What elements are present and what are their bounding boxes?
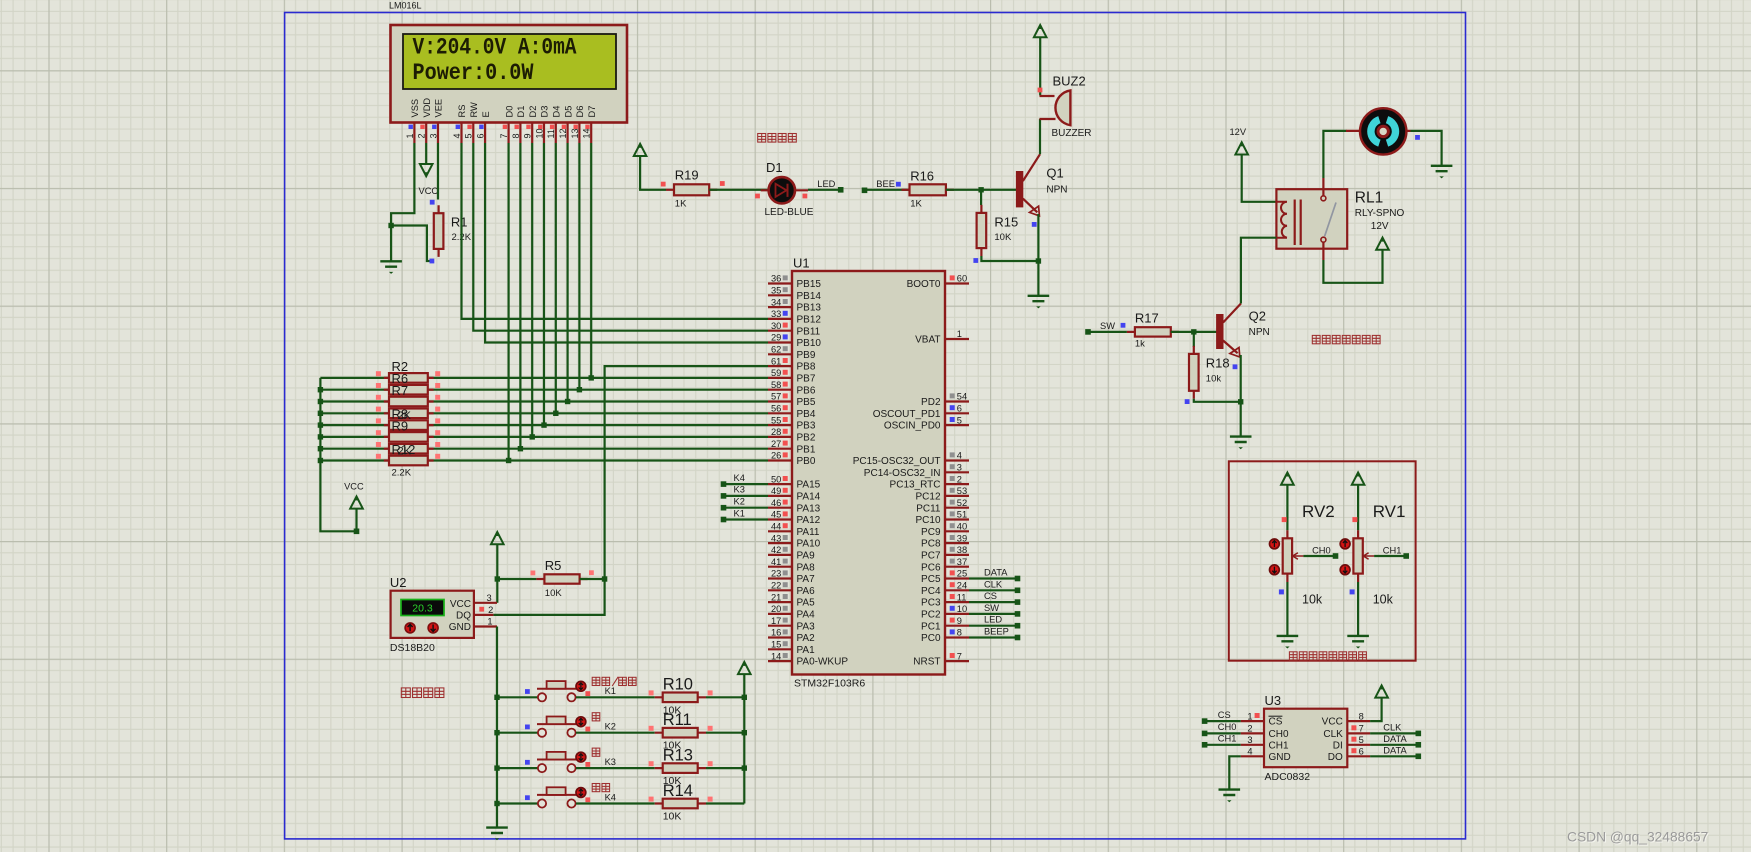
svg-text:R13: R13 — [663, 746, 693, 764]
terminal net DATA (U3 right) — [1416, 754, 1422, 760]
svg-text:DATA: DATA — [1383, 734, 1407, 744]
svg-text:PB13: PB13 — [797, 303, 822, 314]
junction D3/PB3 row — [541, 422, 546, 427]
power VCC (buzzer) — [1034, 25, 1047, 37]
U1 pin 38 PC7 — [945, 554, 969, 556]
resistor R5 — [536, 578, 587, 580]
svg-text:DO: DO — [1328, 752, 1343, 763]
svg-text:PB0: PB0 — [797, 456, 816, 467]
wire RV1 to ground — [1357, 582, 1359, 636]
svg-text:12V: 12V — [1230, 127, 1247, 137]
U1 pin 43 PA10 — [768, 542, 792, 544]
U1 pin 49 PA14 — [768, 495, 792, 497]
state square K2 right — [585, 727, 590, 732]
svg-text:23: 23 — [771, 569, 781, 579]
svg-text:CLK: CLK — [1383, 722, 1402, 732]
U1 pin 51 PC10 — [945, 518, 969, 520]
wire net CS (U3) — [1205, 720, 1241, 722]
svg-text:PB5: PB5 — [797, 397, 816, 408]
temperature sensor U2 DS18B20 body — [391, 591, 474, 638]
wire Q1 collector to buzzer — [1039, 119, 1041, 154]
wire BEE to R16 — [865, 189, 910, 192]
power VCC (key resistors) — [738, 662, 751, 674]
svg-text:PA4: PA4 — [797, 610, 816, 621]
svg-text:Q2: Q2 — [1249, 309, 1266, 324]
svg-text:38: 38 — [957, 545, 967, 555]
svg-text:PC1: PC1 — [921, 621, 941, 632]
svg-text:CS: CS — [1269, 717, 1283, 728]
U1 pin 9 PC1 — [945, 625, 969, 627]
wire net DATA (U3 right) — [1370, 744, 1418, 746]
svg-text:CH1: CH1 — [1383, 545, 1402, 555]
wire U3 GND to ground — [1229, 756, 1240, 789]
svg-text:RLY-SPNO: RLY-SPNO — [1355, 208, 1405, 219]
svg-text:CH1: CH1 — [1218, 734, 1237, 744]
state square net BEE — [896, 182, 901, 187]
svg-text:ADC0832: ADC0832 — [1265, 771, 1311, 783]
U1 pin 29 PB10 — [768, 341, 792, 343]
state square motor right — [1415, 135, 1420, 140]
wire R11 to rail — [706, 732, 744, 734]
wire rail to K2 — [497, 732, 538, 734]
LCD display LM016L body — [391, 25, 628, 123]
wire rail to ground — [496, 804, 498, 828]
svg-text:K1: K1 — [605, 686, 616, 696]
svg-text:U1: U1 — [793, 256, 810, 271]
resistor pack element row 3 — [384, 400, 434, 402]
state square R1 top — [430, 200, 435, 205]
U3 pin 7 CLK — [1347, 732, 1370, 734]
wire VCC to RV1 — [1357, 485, 1359, 531]
svg-text:K4: K4 — [734, 473, 745, 483]
wire D5 column — [566, 143, 568, 402]
state square K1 right — [585, 691, 590, 696]
state square K2 left — [525, 725, 530, 730]
state square R19 right — [720, 181, 725, 186]
svg-text:PC9: PC9 — [921, 527, 941, 538]
wire D1 to LED terminal — [808, 189, 841, 191]
svg-text:53: 53 — [957, 486, 967, 496]
svg-text:D2: D2 — [528, 106, 538, 118]
svg-text:PB4: PB4 — [797, 409, 816, 420]
terminal VCC (pack bus) — [354, 529, 360, 535]
RV1 up icon — [1340, 539, 1350, 549]
svg-text:PB10: PB10 — [797, 338, 822, 349]
svg-text:35: 35 — [771, 286, 781, 296]
annotation 继电器以及负载 — [1312, 335, 1320, 343]
svg-text:PA9: PA9 — [797, 551, 816, 562]
svg-text:PB11: PB11 — [797, 326, 821, 337]
U1 pin 17 PA3 — [768, 625, 792, 627]
svg-text:PA7: PA7 — [797, 574, 816, 585]
U1 pin 34 PB13 — [768, 306, 792, 308]
state square R18 bottom — [1185, 399, 1190, 404]
junction key rail — [494, 695, 499, 700]
svg-text:CLK: CLK — [984, 579, 1003, 589]
ADC U3 ADC0832 body — [1264, 709, 1347, 768]
U1 pin 33 PB12 — [768, 318, 792, 320]
wire net K4 — [724, 483, 769, 485]
terminal net CH0 (U3) — [1202, 731, 1208, 737]
power VCC (R5) — [491, 532, 504, 544]
wire key left rail — [496, 627, 498, 804]
wire RV2 wiper to CH0 — [1303, 555, 1335, 557]
svg-text:41: 41 — [771, 557, 781, 567]
svg-text:U3: U3 — [1265, 693, 1282, 708]
svg-text:DS18B20: DS18B20 — [390, 642, 435, 654]
ground (motor) — [1431, 166, 1453, 171]
svg-text:PB14: PB14 — [797, 291, 822, 302]
junction bus row — [318, 387, 323, 392]
terminal net K3 — [721, 493, 727, 499]
svg-text:PC2: PC2 — [921, 610, 941, 621]
U1 pin 59 PB7 — [768, 377, 792, 379]
wire pack row 3 to MCU — [320, 400, 768, 402]
svg-text:2: 2 — [488, 605, 493, 615]
svg-text:2: 2 — [417, 133, 427, 138]
annotation 电流电压模拟调节 — [1289, 652, 1297, 660]
svg-text:PA2: PA2 — [797, 633, 816, 644]
terminal net BEEP — [1015, 635, 1021, 641]
resistor pack element row 4 — [384, 412, 434, 414]
wire R10 to rail — [706, 696, 744, 698]
resistor pack element row 2 — [384, 389, 434, 391]
wire K4 to R14 — [576, 802, 655, 804]
svg-text:PA6: PA6 — [797, 586, 816, 597]
svg-text:2K: 2K — [398, 445, 412, 457]
svg-text:CS: CS — [1218, 710, 1231, 720]
wire key right rail — [743, 674, 745, 803]
annotation 温度调节 — [401, 688, 410, 698]
terminal net CS — [1015, 599, 1021, 605]
U3 pin 6 DO — [1347, 755, 1370, 757]
svg-text:39: 39 — [957, 533, 967, 543]
svg-text:D6: D6 — [575, 106, 585, 118]
wire E to PB10 — [485, 143, 768, 343]
svg-text:29: 29 — [771, 333, 781, 343]
svg-text:1: 1 — [1247, 711, 1252, 721]
svg-text:59: 59 — [771, 368, 781, 378]
resistor R1 — [438, 205, 440, 257]
junction D0/PB0 row — [506, 458, 511, 463]
junction bus row — [318, 422, 323, 427]
wire net K3 — [724, 495, 769, 497]
terminal net DATA (U3 right) — [1416, 742, 1422, 748]
wire R13 to rail — [706, 767, 744, 769]
svg-text:61: 61 — [771, 356, 781, 366]
svg-text:K3: K3 — [734, 485, 745, 495]
junction R5/DQ column — [602, 576, 607, 581]
svg-text:BEEP: BEEP — [984, 627, 1009, 637]
svg-text:PB1: PB1 — [797, 444, 816, 455]
svg-text:PA8: PA8 — [797, 562, 816, 573]
terminal net CS (U3) — [1202, 718, 1208, 724]
wire net DATA — [969, 577, 1018, 579]
U1 pin 11 PC3 — [945, 601, 969, 603]
U1 pin 8 PC0 — [945, 636, 969, 638]
junction key rail K4 — [494, 801, 499, 806]
svg-text:3: 3 — [428, 133, 438, 138]
resistor R14 — [655, 802, 706, 804]
terminal net CH0 — [1333, 553, 1339, 559]
svg-text:RS: RS — [457, 105, 467, 118]
U1 pin 4 PC15-OSC32_OUT — [945, 459, 969, 461]
svg-text:NRST: NRST — [913, 657, 940, 668]
U1 pin 62 PB9 — [768, 353, 792, 355]
svg-text:VBAT: VBAT — [915, 335, 940, 346]
svg-text:1: 1 — [405, 133, 415, 138]
svg-text:VSS: VSS — [410, 99, 420, 118]
wire PB8 to R5 column — [605, 366, 768, 579]
svg-text:NPN: NPN — [1249, 327, 1270, 338]
U1 pin 35 PB14 — [768, 294, 792, 296]
wire D4 column — [555, 143, 557, 413]
svg-text:K3: K3 — [605, 757, 616, 767]
U1 pin 41 PA8 — [768, 566, 792, 568]
resistor pack element row 7 — [384, 448, 434, 450]
state square D1 left — [755, 194, 760, 199]
svg-text:1: 1 — [957, 329, 962, 339]
svg-text:11: 11 — [546, 129, 556, 138]
svg-text:3: 3 — [487, 593, 492, 603]
svg-text:RV1: RV1 — [1373, 502, 1406, 521]
svg-text:42: 42 — [771, 545, 781, 555]
svg-text:PA15: PA15 — [797, 480, 821, 491]
wire VCC to buzzer — [1039, 37, 1041, 95]
wire net DATA (U3 right) — [1370, 755, 1418, 757]
svg-text:D4: D4 — [552, 106, 562, 118]
annotation 减 — [592, 748, 600, 756]
terminal net SW — [1085, 329, 1091, 335]
svg-text:10K: 10K — [663, 811, 682, 823]
wire net CH1 (U3) — [1205, 744, 1241, 746]
wire net K2 — [724, 507, 769, 509]
svg-text:PC10: PC10 — [915, 515, 940, 526]
power VCC (LCD VDD, arrow down) — [420, 164, 433, 176]
wire R19 to D1 — [709, 189, 768, 191]
junction key rail — [494, 765, 499, 770]
svg-text:13: 13 — [570, 128, 580, 138]
power VCC (RV2) — [1281, 473, 1294, 485]
svg-text:PA10: PA10 — [797, 539, 821, 550]
svg-text:10k: 10k — [1206, 373, 1222, 384]
wire pack row 5 to MCU — [320, 424, 768, 426]
U1 pin 20 PA4 — [768, 613, 792, 615]
U1 pin 54 PD2 — [945, 400, 969, 402]
wire D3 column — [543, 143, 545, 425]
svg-text:PA1: PA1 — [797, 645, 816, 656]
svg-text:PC5: PC5 — [921, 574, 941, 585]
RV1 wiper — [1363, 553, 1374, 560]
K1 actuator icon — [576, 681, 586, 691]
svg-text:PB7: PB7 — [797, 374, 816, 385]
wire R5 right — [580, 578, 605, 580]
svg-text:RV2: RV2 — [1302, 502, 1335, 521]
wire net LED — [969, 625, 1018, 627]
svg-text:SW: SW — [984, 603, 999, 613]
power VCC (RV1) — [1352, 473, 1365, 485]
schematic sheet border — [285, 13, 1466, 839]
svg-text:PB6: PB6 — [797, 385, 816, 396]
svg-text:VDD: VDD — [422, 98, 432, 118]
svg-text:PB15: PB15 — [797, 279, 822, 290]
RV2 wiper — [1293, 553, 1304, 560]
svg-text:R17: R17 — [1135, 310, 1159, 325]
wire net K1 — [724, 518, 769, 520]
U1 pin 57 PB5 — [768, 400, 792, 402]
svg-text:CLK: CLK — [1323, 729, 1343, 740]
svg-text:VEE: VEE — [434, 99, 444, 118]
svg-text:10K: 10K — [545, 588, 563, 599]
svg-text:PA12: PA12 — [797, 515, 821, 526]
junction D1/PB1 row — [518, 446, 523, 451]
U2 decrement button icon — [428, 623, 438, 633]
wire VCC to R19 — [640, 156, 666, 190]
U1 pin 36 PB15 — [768, 282, 792, 284]
svg-text:PB2: PB2 — [797, 433, 816, 444]
resistor pack element row 6 — [384, 436, 434, 438]
svg-text:44: 44 — [771, 522, 781, 532]
svg-text:28: 28 — [771, 427, 781, 437]
U1 pin 2 PC13_RTC — [945, 483, 969, 485]
svg-text:R7: R7 — [392, 383, 409, 398]
wire VEE to R1 top — [437, 143, 439, 200]
svg-text:DQ: DQ — [456, 611, 471, 622]
svg-text:RW: RW — [469, 102, 479, 118]
svg-text:R5: R5 — [545, 558, 562, 573]
ground (RV2) — [1277, 636, 1299, 641]
power 12V (relay switch) — [1376, 238, 1389, 250]
U1 pin 60 BOOT0 — [945, 282, 969, 284]
terminal net K4 — [721, 481, 727, 487]
wire D2 column — [531, 143, 533, 437]
svg-text:PC15-OSC32_OUT: PC15-OSC32_OUT — [853, 456, 941, 467]
state square K3 left — [525, 760, 530, 765]
state square Q2 emitter — [1233, 364, 1238, 369]
svg-text:R9: R9 — [392, 418, 409, 433]
svg-text:6: 6 — [476, 133, 486, 138]
annotation 设置 — [592, 784, 600, 792]
state square Q1 emitter — [1032, 222, 1037, 227]
relay switch blade — [1325, 203, 1336, 237]
U1 pin 52 PC11 — [945, 507, 969, 509]
svg-text:V:204.0V A:0mA: V:204.0V A:0mA — [413, 35, 577, 61]
svg-text:PA3: PA3 — [797, 621, 816, 632]
svg-text:PC11: PC11 — [916, 503, 941, 514]
junction D6/PB6 row — [577, 387, 582, 392]
U1 pin 39 PC8 — [945, 542, 969, 544]
svg-text:52: 52 — [957, 498, 967, 508]
U1 pin 37 PC6 — [945, 566, 969, 568]
svg-text:PD2: PD2 — [921, 397, 941, 408]
junction R5 left — [495, 576, 500, 581]
svg-text:GND: GND — [1269, 752, 1291, 763]
U1 pin 6 OSCOUT_PD1 — [945, 412, 969, 414]
svg-text:K2: K2 — [605, 722, 616, 732]
svg-text:R16: R16 — [910, 169, 934, 184]
svg-text:10: 10 — [534, 128, 544, 138]
resistor pack element row 8 — [384, 459, 434, 461]
svg-text:15: 15 — [771, 640, 781, 650]
U3 pin 8 VCC — [1347, 720, 1370, 722]
svg-text:46: 46 — [771, 498, 781, 508]
svg-text:1: 1 — [487, 617, 492, 627]
svg-text:R14: R14 — [663, 782, 693, 800]
svg-text:7: 7 — [499, 133, 509, 138]
svg-text:RL1: RL1 — [1355, 189, 1383, 206]
svg-text:D5: D5 — [563, 106, 573, 118]
svg-text:10: 10 — [957, 604, 967, 614]
svg-text:PB8: PB8 — [797, 362, 816, 373]
wire K1 to R10 — [576, 696, 655, 698]
U1 pin 23 PA7 — [768, 577, 792, 579]
svg-text:7: 7 — [1359, 724, 1364, 734]
svg-text:CH0: CH0 — [1218, 722, 1237, 732]
junction R17/R18 — [1191, 329, 1196, 334]
svg-text:R18: R18 — [1206, 356, 1230, 371]
svg-text:BOOT0: BOOT0 — [907, 279, 941, 290]
svg-text:20: 20 — [771, 604, 781, 614]
svg-text:1k: 1k — [1135, 339, 1145, 350]
terminal net LED — [838, 187, 844, 193]
svg-text:1K: 1K — [675, 198, 687, 209]
svg-text:9: 9 — [957, 616, 962, 626]
svg-text:25: 25 — [957, 569, 967, 579]
svg-text:DATA: DATA — [984, 568, 1008, 578]
terminal net CH1 — [1403, 553, 1409, 559]
svg-text:CS: CS — [984, 591, 997, 601]
svg-text:1K: 1K — [910, 198, 922, 209]
terminal net CLK — [1015, 588, 1021, 594]
svg-text:OSCIN_PD0: OSCIN_PD0 — [884, 421, 941, 432]
svg-text:PA13: PA13 — [797, 503, 821, 514]
U3 pin 4 GND — [1241, 755, 1264, 757]
svg-text:24: 24 — [957, 581, 967, 591]
power 12V (relay coil) — [1235, 142, 1248, 154]
wire motor to ground — [1411, 131, 1442, 166]
U2 pin 1 GND — [474, 625, 497, 627]
relay switch contacts — [1321, 196, 1326, 201]
U2 increment button icon — [405, 623, 415, 633]
svg-text:LED-BLUE: LED-BLUE — [765, 207, 814, 218]
svg-text:37: 37 — [957, 557, 967, 567]
ground (Q1 emitter) — [1028, 296, 1050, 301]
svg-text:K2: K2 — [734, 497, 745, 507]
svg-text:5: 5 — [1359, 735, 1364, 745]
U1 pin 22 PA6 — [768, 589, 792, 591]
svg-text:8: 8 — [1359, 711, 1364, 721]
svg-text:LED: LED — [817, 179, 835, 189]
svg-text:PC14-OSC32_IN: PC14-OSC32_IN — [864, 468, 941, 479]
svg-text:57: 57 — [771, 392, 781, 402]
U3 pin 2 CH0 — [1241, 732, 1264, 734]
U3 pin 3 CH1 — [1241, 744, 1264, 746]
svg-text:2: 2 — [957, 474, 962, 484]
svg-text:BEE: BEE — [876, 179, 895, 189]
power VCC (U3) — [1375, 685, 1388, 697]
junction key right rail — [742, 765, 747, 770]
svg-text:30: 30 — [771, 321, 781, 331]
svg-text:D0: D0 — [504, 106, 514, 118]
LCD green screen — [403, 34, 616, 89]
wire pack row 8 to MCU — [320, 459, 768, 461]
svg-text:8: 8 — [957, 628, 962, 638]
wire D6 column — [578, 143, 580, 390]
wire net CLK — [969, 589, 1018, 591]
wire RV1 wiper to CH1 — [1374, 555, 1406, 557]
wire VSS to ground — [391, 143, 414, 261]
terminal net CLK (U3 right) — [1416, 731, 1422, 737]
